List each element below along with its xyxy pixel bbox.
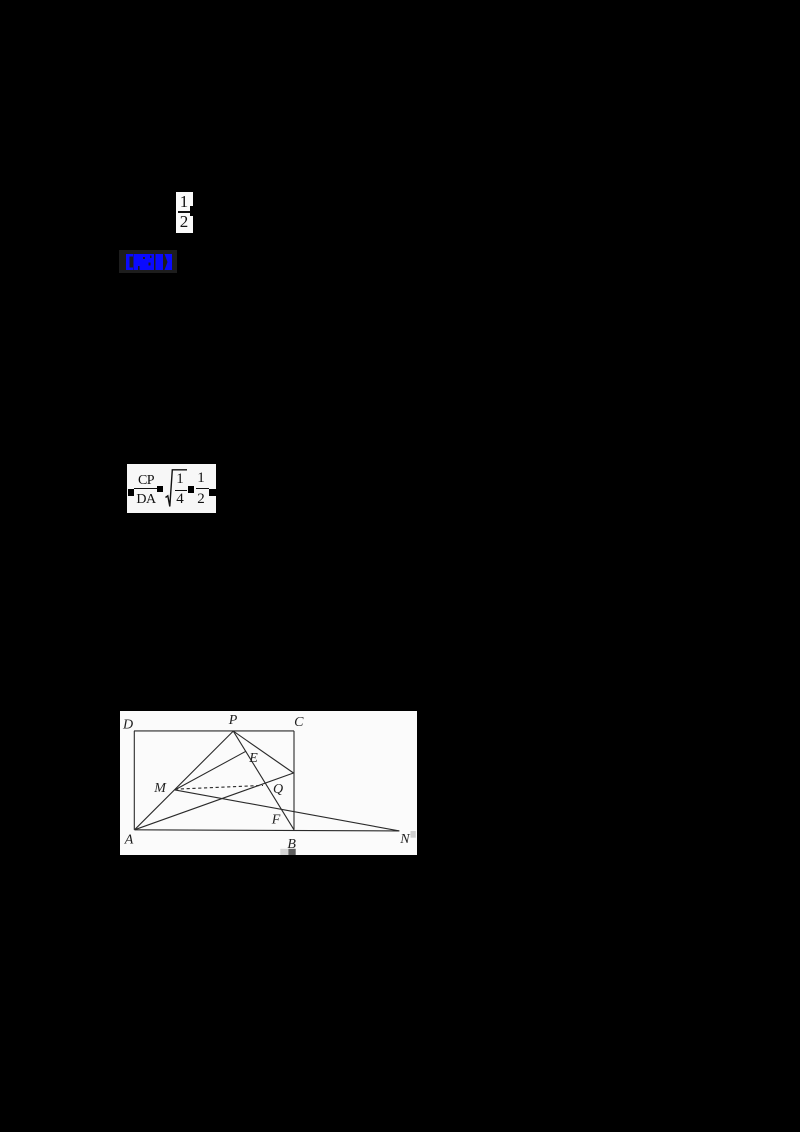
light grey square under B: [280, 849, 288, 855]
svg-text:M: M: [153, 782, 167, 797]
fraction 1/2 denominator: [176, 213, 192, 231]
dashed line M to Q: [175, 786, 263, 790]
formula left edge black square: [128, 489, 134, 496]
svg-text:P: P: [227, 713, 237, 728]
svg-text:F: F: [270, 813, 280, 828]
svg-text:D: D: [122, 718, 133, 733]
formula white box: [127, 464, 216, 513]
line A to P through M: [134, 731, 233, 830]
formula CP numerator: [133, 473, 159, 488]
fraction 1/2 numerator: [176, 193, 192, 211]
formula right edge black square: [209, 489, 216, 496]
line P to B through E and F: [233, 731, 294, 830]
line M to N: [174, 790, 398, 831]
dark grey square under B: [288, 849, 295, 855]
svg-text:Q: Q: [273, 782, 283, 797]
formula 1/2 numerator: [194, 471, 208, 486]
formula 1/2 denominator: [194, 492, 208, 507]
formula 1/4 numerator: [173, 472, 187, 487]
light grey square right of N: [410, 831, 415, 838]
formula 1/4 bar: [175, 490, 187, 491]
rectangle right edge CB: [293, 731, 295, 830]
diagram svg: [120, 711, 417, 855]
diagram white panel: [120, 711, 417, 855]
svg-text:C: C: [294, 715, 304, 730]
svg-text:N: N: [399, 833, 410, 848]
blue heading text blob: [119, 250, 177, 273]
rectangle top edge DC: [134, 730, 294, 732]
formula CP/DA bar: [134, 488, 159, 489]
formula equals square 2: [188, 486, 194, 493]
formula DA denominator: [133, 492, 159, 507]
blue heading dark background: [119, 250, 177, 273]
rectangle left edge DA: [133, 731, 135, 830]
formula equals square 1: [157, 486, 163, 492]
black notch right of fraction: [190, 206, 193, 216]
fraction 1/2 bar: [178, 211, 192, 213]
fraction 1/2 white box: [176, 192, 193, 233]
svg-text:E: E: [248, 751, 258, 766]
bottom line A to N: [134, 830, 399, 831]
line A to R through Q: [134, 773, 293, 830]
line P to R on right edge: [233, 731, 293, 773]
formula 1/2 second bar: [196, 488, 209, 489]
svg-text:A: A: [123, 833, 133, 848]
line M to E: [174, 752, 245, 791]
formula 1/4 denominator: [173, 492, 187, 507]
radical sign: [163, 466, 191, 510]
